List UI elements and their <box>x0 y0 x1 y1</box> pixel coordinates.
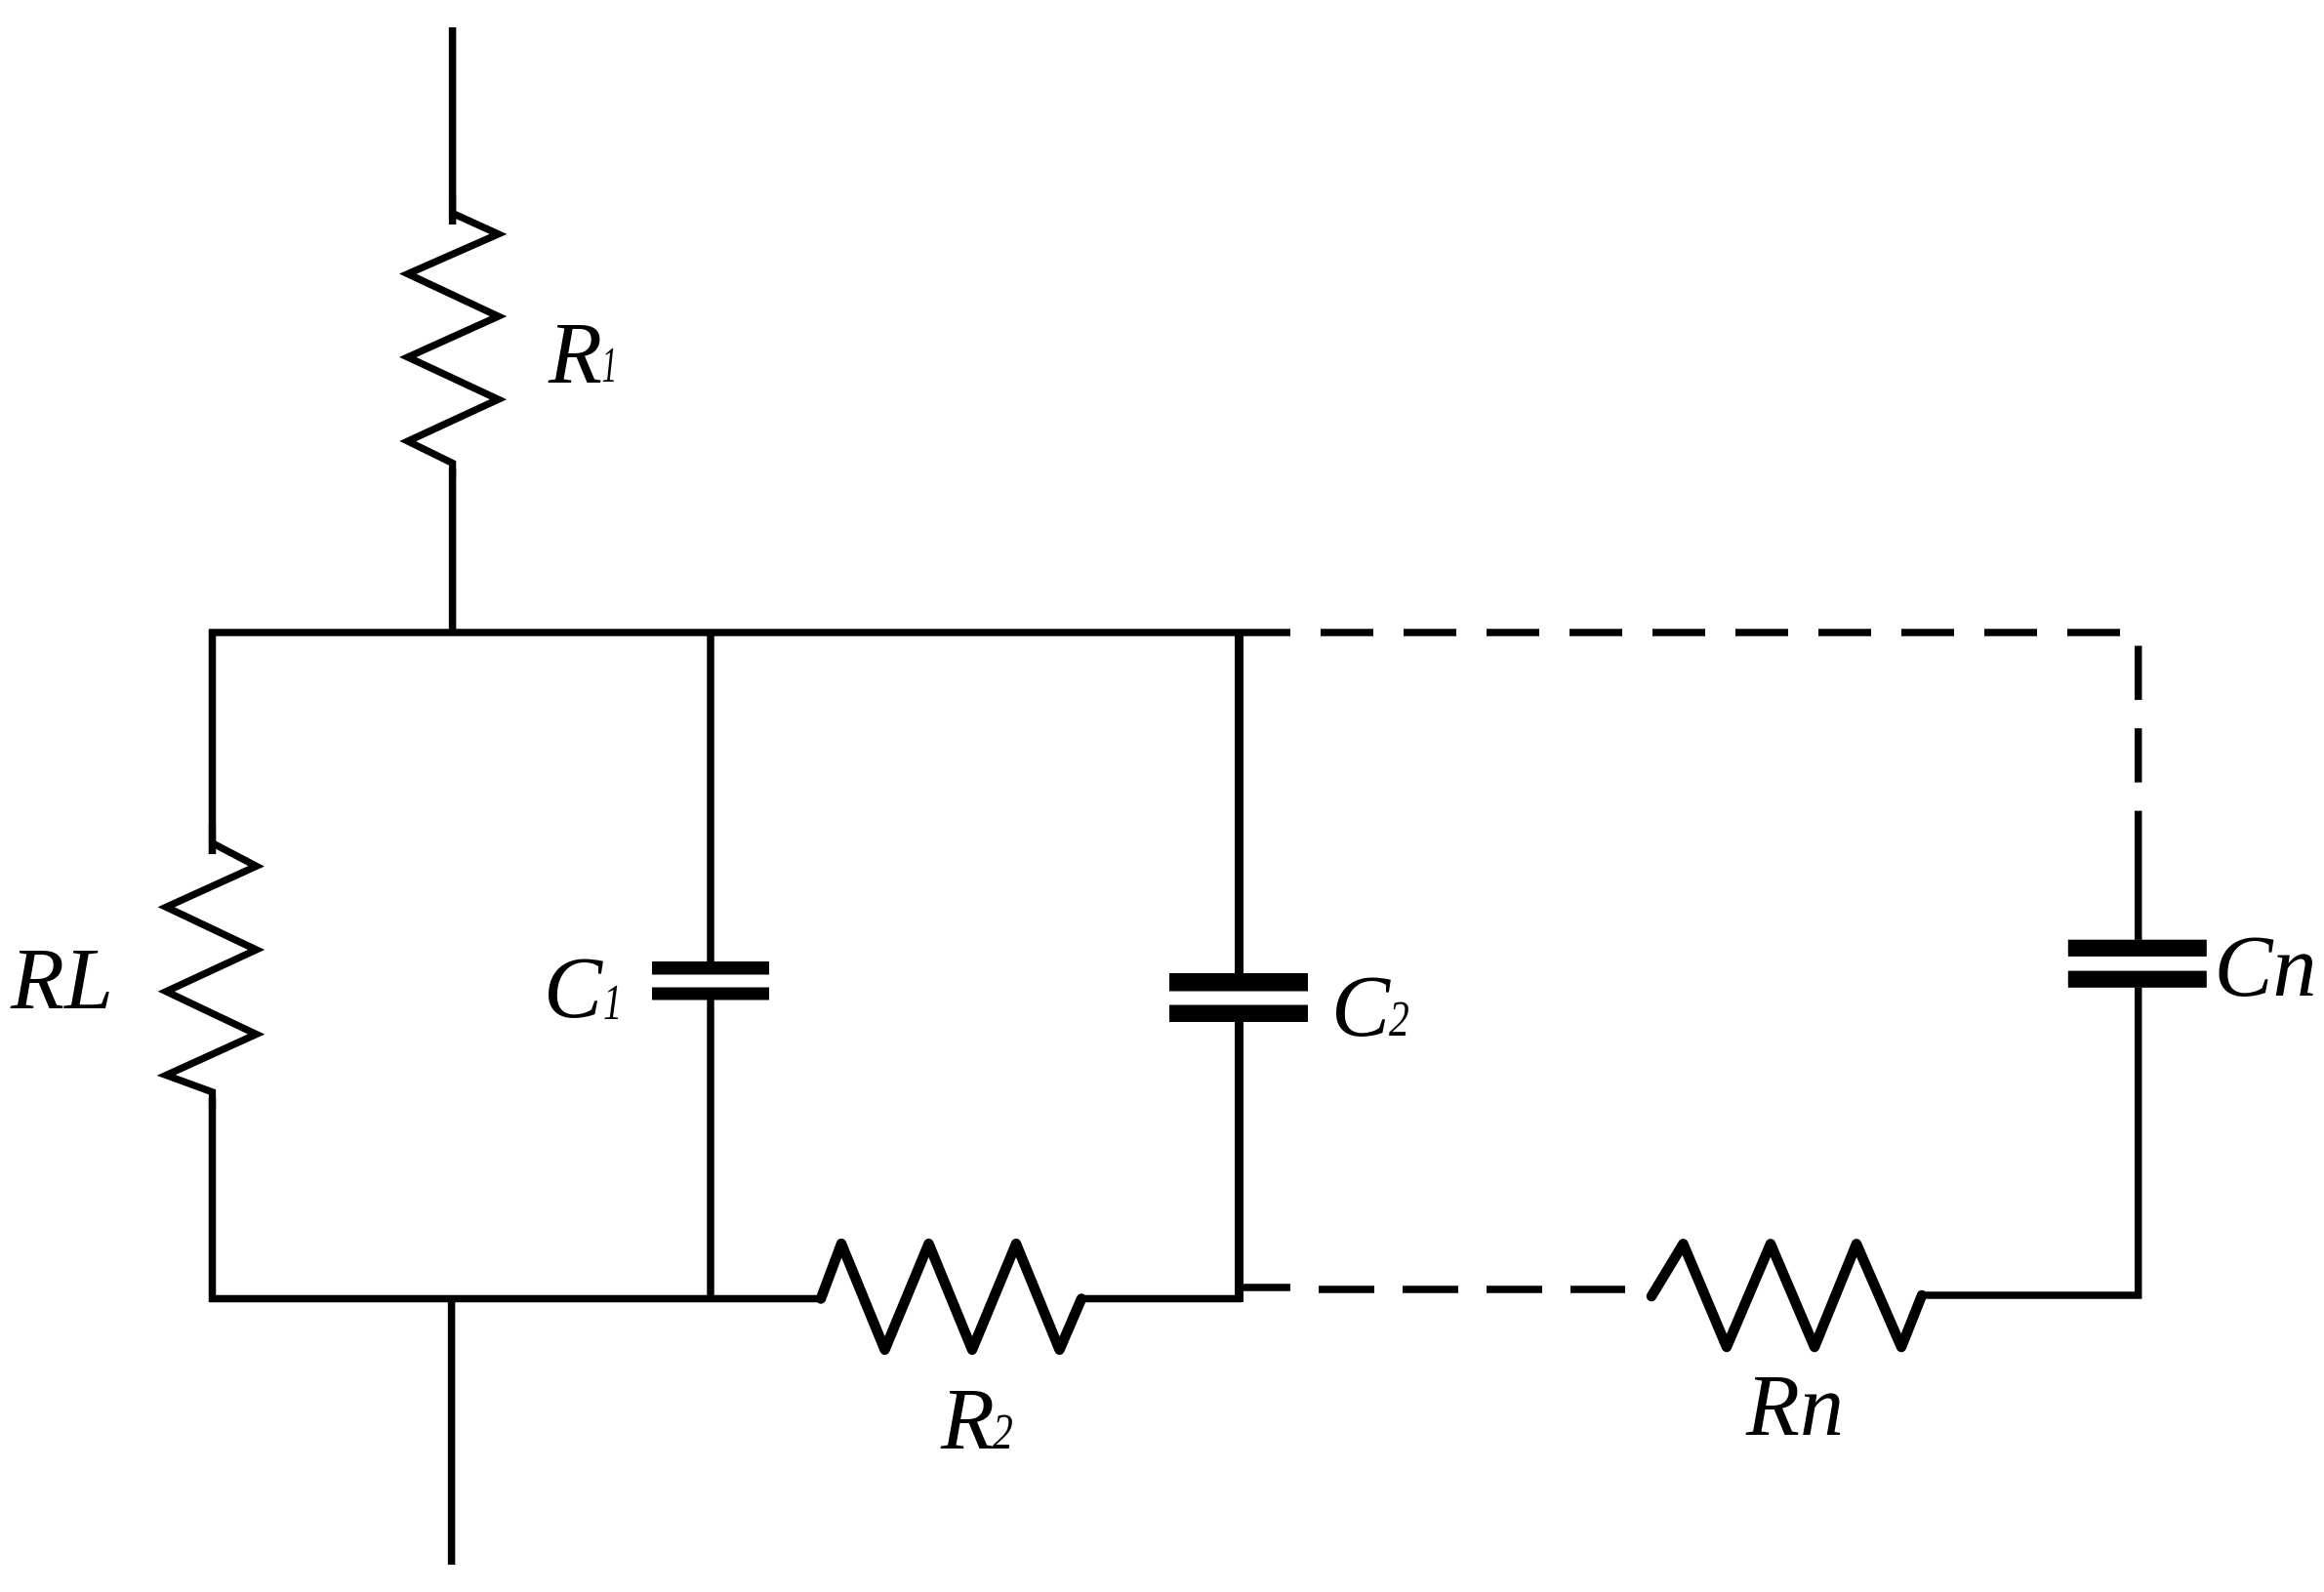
capacitor C1 top plate <box>652 961 769 975</box>
right branch wire (solid, above Cn) <box>2135 811 2142 940</box>
svg-text:1: 1 <box>603 973 622 1030</box>
wire: C2 to bottom node <box>1235 1022 1244 1302</box>
wire R1 to top bus <box>449 469 457 633</box>
wire: Rn to right branch corner <box>1920 988 2139 1295</box>
capacitor Cn bottom plate <box>2068 971 2207 988</box>
input wire (top) <box>449 27 457 225</box>
wire: top bus to capacitor C2 <box>1235 633 1244 973</box>
output wire (bottom) <box>448 1299 456 1566</box>
resistor R1 <box>408 195 499 478</box>
dashed bottom wire to Rn <box>1319 1286 1625 1293</box>
wire stub right of C2 bottom node <box>1242 1284 1290 1291</box>
resistor R2 <box>821 1244 1081 1350</box>
svg-text:C: C <box>544 940 603 1037</box>
wire: RL to bottom bus <box>209 1098 217 1302</box>
svg-text:R: R <box>548 306 602 402</box>
capacitor C1 bottom plate <box>652 988 769 1000</box>
wire: C1 to bottom bus <box>707 1000 714 1299</box>
right branch wire (dashed, top) <box>2135 646 2142 811</box>
resistor RL <box>166 825 256 1108</box>
top bus wire (dashed continuation) <box>1321 629 2124 636</box>
wire: top bus to capacitor C1 <box>707 633 714 961</box>
resistor Rn <box>1651 1244 1922 1347</box>
svg-text:RL: RL <box>10 931 113 1028</box>
svg-text:Rn: Rn <box>1745 1358 1844 1454</box>
wire: R2 to C2 bottom node <box>1080 1295 1242 1303</box>
svg-text:1: 1 <box>602 338 618 393</box>
top bus wire (solid) <box>210 629 1291 636</box>
svg-text:2: 2 <box>993 1405 1013 1460</box>
svg-text:Cn: Cn <box>2215 918 2317 1015</box>
bottom bus wire (solid left) <box>210 1295 824 1303</box>
wire: top bus to resistor RL <box>209 630 217 855</box>
capacitor Cn top plate <box>2068 940 2207 957</box>
capacitor C2 top plate <box>1169 973 1308 992</box>
capacitor C2 bottom plate <box>1169 1005 1308 1023</box>
svg-text:C: C <box>1331 959 1391 1055</box>
svg-text:2: 2 <box>1389 992 1409 1047</box>
svg-text:R: R <box>940 1371 995 1468</box>
